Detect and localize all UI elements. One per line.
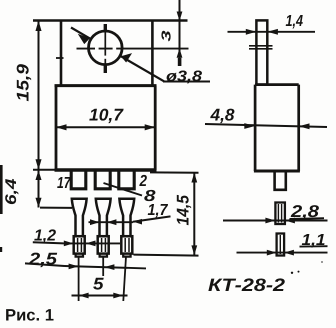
svg-text:Рис. 1: Рис. 1	[5, 307, 54, 325]
svg-text:1,1: 1,1	[302, 232, 326, 249]
svg-text:15,9: 15,9	[14, 63, 33, 101]
svg-text:2,8: 2,8	[290, 202, 320, 221]
svg-text:1,7: 1,7	[148, 202, 169, 219]
svg-text:1,4: 1,4	[286, 13, 304, 30]
svg-text:5: 5	[93, 275, 104, 294]
svg-text:4,8: 4,8	[209, 106, 235, 125]
svg-text:14,5: 14,5	[174, 195, 193, 226]
svg-text:1,2: 1,2	[34, 228, 56, 245]
svg-text:3: 3	[159, 29, 174, 41]
svg-text:2,5: 2,5	[28, 250, 58, 269]
svg-text:17: 17	[57, 175, 71, 192]
svg-text:ø3,8: ø3,8	[166, 68, 203, 85]
svg-text:КТ-28-2: КТ-28-2	[208, 275, 285, 295]
svg-text:10,7: 10,7	[89, 106, 125, 125]
svg-text:6,4: 6,4	[3, 178, 20, 205]
